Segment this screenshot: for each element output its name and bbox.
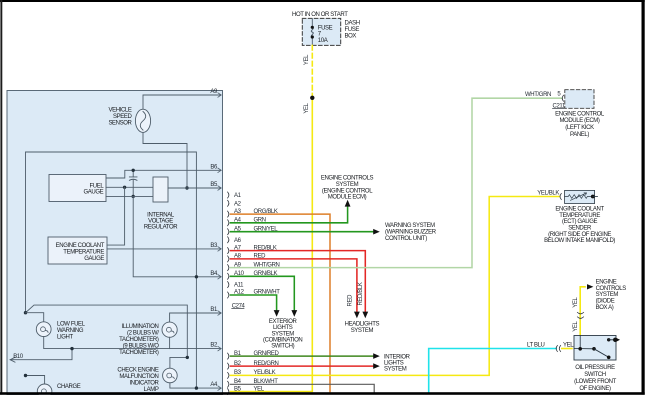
- node charge lamp branch: [24, 374, 27, 377]
- svg-text:GRN/YEL: GRN/YEL: [254, 226, 279, 232]
- svg-text:B2: B2: [210, 343, 218, 349]
- wire capacitor bottom down to B4 line: [133, 196, 221, 276]
- wire charge lamp top: [26, 376, 45, 385]
- svg-text:RED/GRN: RED/GRN: [254, 361, 279, 367]
- svg-text:SYSTEM: SYSTEM: [596, 292, 619, 298]
- wire ECT gauge up to fuel gauge net: [107, 187, 125, 245]
- svg-text:TACHOMETER): TACHOMETER): [119, 337, 159, 343]
- svg-text:INDICATOR: INDICATOR: [129, 381, 159, 387]
- oil pressure switch: [574, 336, 620, 393]
- svg-text:B1: B1: [210, 307, 218, 313]
- wire fuel gauge top to pin B6: [106, 170, 221, 178]
- wire YEL short to oil pressure switch: [562, 348, 572, 350]
- svg-text:GRN: GRN: [254, 218, 266, 224]
- svg-text:A1: A1: [234, 193, 242, 199]
- wire check engine lamp top: [170, 357, 187, 368]
- svg-text:SWITCH: SWITCH: [584, 372, 605, 378]
- fuse terminal dots: [311, 26, 314, 29]
- svg-text:OIL PRESSURE: OIL PRESSURE: [575, 365, 615, 371]
- illumination lamp: [119, 322, 177, 356]
- svg-text:B5: B5: [234, 386, 242, 392]
- node loop joins B4 line: [195, 275, 198, 278]
- svg-text:YEL: YEL: [304, 102, 310, 113]
- svg-text:(LOWER FRONT: (LOWER FRONT: [574, 379, 616, 385]
- engine coolant temperature gauge: [48, 237, 107, 264]
- svg-text:RED/BLK: RED/BLK: [254, 245, 277, 251]
- svg-text:OF ENGINE): OF ENGINE): [579, 386, 611, 392]
- svg-text:FUSE: FUSE: [318, 25, 333, 31]
- arrows to interior lights system: [373, 353, 380, 359]
- svg-text:SYSTEM: SYSTEM: [351, 328, 374, 334]
- svg-text:A4: A4: [210, 382, 218, 388]
- svg-text:MALFUNCTION: MALFUNCTION: [119, 374, 158, 380]
- svg-text:GAUGE: GAUGE: [84, 256, 104, 262]
- svg-text:GAUGE: GAUGE: [84, 190, 104, 196]
- svg-text:WARNING: WARNING: [57, 328, 84, 334]
- svg-text:SYSTEM: SYSTEM: [336, 182, 359, 188]
- node loop joins A4 line: [195, 386, 198, 389]
- vehicle speed sensor wire to pin A9: [143, 95, 221, 110]
- svg-text:WARNING SYSTEM: WARNING SYSTEM: [385, 223, 435, 229]
- svg-text:REGULATOR: REGULATOR: [144, 225, 178, 231]
- svg-text:DASH: DASH: [345, 20, 360, 26]
- svg-text:SWITCH): SWITCH): [271, 344, 294, 350]
- dash fuse box: [302, 18, 340, 45]
- capacitor C1 leads: [132, 170, 134, 196]
- svg-text:RED: RED: [254, 254, 267, 260]
- wire YEL dashed from fuse: [311, 45, 313, 97]
- wire A4 GRN: [231, 206, 348, 222]
- arrow to engine controls system diode box: [587, 284, 593, 289]
- charge warning light: [37, 384, 80, 395]
- inline connector on YEL wire: [577, 312, 583, 318]
- svg-text:SYSTEM: SYSTEM: [384, 366, 407, 372]
- wire B4 BLK/WHT: [231, 384, 375, 392]
- node B10 joins lamp rail: [70, 347, 73, 350]
- svg-text:LIGHTS: LIGHTS: [273, 325, 293, 331]
- pin arrow B3: [218, 247, 221, 251]
- svg-text:B4: B4: [210, 271, 218, 277]
- svg-text:BLK/WHT: BLK/WHT: [254, 379, 279, 385]
- wire A3 ORG/BLK: [231, 214, 331, 392]
- wire low fuel lamp bottom to B2 rail: [44, 337, 221, 349]
- svg-text:ENGINE COOLANT: ENGINE COOLANT: [555, 207, 604, 213]
- connector symbol at ECM: [562, 95, 563, 101]
- wire ECT gauge to pin B3: [107, 248, 221, 250]
- arrows to exterior lights system: [274, 310, 280, 317]
- svg-text:PANEL): PANEL): [570, 132, 589, 138]
- svg-text:(2 BULBS W/: (2 BULBS W/: [127, 331, 159, 337]
- wire A7 RED/BLK: [231, 251, 366, 312]
- svg-text:B3: B3: [210, 243, 218, 249]
- pin arrow B2: [218, 346, 221, 350]
- instrument cluster box: [7, 91, 223, 395]
- wire B3 YEL/BLK: [231, 197, 560, 376]
- svg-text:TEMPERATURE: TEMPERATURE: [63, 250, 104, 256]
- arrow B10: [10, 357, 15, 362]
- wire regulator to pin B5: [168, 187, 221, 189]
- wire fuel gauge middle to regulator: [106, 186, 153, 188]
- svg-text:WHT/GRN: WHT/GRN: [254, 262, 280, 268]
- svg-text:SPEED: SPEED: [113, 114, 132, 120]
- svg-text:A9: A9: [210, 89, 218, 95]
- node capacitor top on B6 line: [132, 169, 135, 172]
- svg-text:RED/BLK: RED/BLK: [358, 282, 364, 305]
- svg-text:FUSE: FUSE: [345, 27, 360, 33]
- svg-text:VEHICLE: VEHICLE: [108, 108, 131, 114]
- node capacitor bottom: [132, 195, 135, 198]
- svg-text:ENGINE COOLANT: ENGINE COOLANT: [56, 243, 105, 249]
- low fuel warning light: [36, 321, 85, 340]
- capacitor C1: [129, 177, 137, 180]
- svg-text:LIGHT: LIGHT: [57, 334, 73, 340]
- svg-text:ENGINE: ENGINE: [596, 279, 617, 285]
- wire illumination lamp bottom: [169, 337, 171, 348]
- svg-text:FUEL: FUEL: [89, 183, 104, 189]
- fuse 7 10A leads: [311, 18, 313, 45]
- wire VSS bottom to B5 net: [143, 132, 187, 188]
- svg-text:LT BLU: LT BLU: [527, 342, 545, 348]
- wire B1 GRN/RED: [231, 355, 374, 357]
- svg-text:LAMP: LAMP: [144, 387, 159, 393]
- connector C274 pin sockets: [228, 192, 229, 395]
- svg-text:YEL: YEL: [304, 54, 310, 65]
- pin arrow A4: [218, 386, 221, 390]
- svg-text:10A: 10A: [318, 38, 328, 44]
- pin arrow A9: [218, 93, 221, 97]
- svg-text:B6: B6: [210, 164, 218, 170]
- wire illumination lamp top to pin B1: [170, 313, 221, 322]
- connector symbol at ECT sender: [560, 194, 561, 200]
- svg-text:YEL: YEL: [573, 296, 579, 307]
- wire B10 dimmer feed: [10, 349, 72, 360]
- wire YEL to diode box A: [580, 287, 585, 336]
- svg-text:WHT/GRN: WHT/GRN: [525, 92, 551, 98]
- svg-text:BOX A): BOX A): [596, 305, 614, 311]
- pin arrow B1: [218, 311, 221, 315]
- svg-text:B5: B5: [210, 182, 218, 188]
- wire A8 RED: [231, 259, 357, 312]
- svg-text:(WARNING BUZZER: (WARNING BUZZER: [385, 230, 437, 236]
- svg-text:A6: A6: [234, 238, 242, 244]
- svg-text:ENGINE CONTROLS: ENGINE CONTROLS: [321, 176, 374, 182]
- svg-text:YEL/BLK: YEL/BLK: [537, 191, 559, 197]
- vehicle speed sensor VSS: [108, 108, 150, 133]
- pin arrow B4: [218, 275, 221, 279]
- svg-text:CHARGE: CHARGE: [57, 384, 81, 390]
- arrow to warning system: [373, 229, 380, 235]
- svg-text:MODULE (ECM): MODULE (ECM): [559, 118, 599, 124]
- page border left: [0, 0, 2, 395]
- svg-text:RED: RED: [348, 294, 354, 307]
- svg-text:(ENGINE CONTROL: (ENGINE CONTROL: [322, 188, 373, 194]
- svg-text:BOX: BOX: [345, 34, 357, 40]
- svg-text:CONTROL UNIT): CONTROL UNIT): [385, 236, 427, 242]
- svg-text:CONTROLS: CONTROLS: [596, 286, 627, 292]
- svg-text:(DIODE: (DIODE: [596, 299, 615, 305]
- svg-text:CHECK ENGINE: CHECK ENGINE: [117, 368, 158, 374]
- svg-text:YEL: YEL: [573, 320, 579, 331]
- svg-text:TACHOMETER): TACHOMETER): [119, 350, 159, 356]
- svg-text:(RIGHT SIDE OF ENGINE: (RIGHT SIDE OF ENGINE: [548, 232, 611, 238]
- inline connector LT BLU to YEL: [556, 346, 560, 352]
- svg-text:SENSOR: SENSOR: [108, 120, 132, 126]
- fuse 7 element: [311, 27, 313, 37]
- arrows to headlights system: [354, 312, 360, 319]
- wire low fuel lamp top: [26, 313, 44, 322]
- wire YEL main vertical: [231, 98, 313, 392]
- wire lamp common loop: [26, 152, 197, 388]
- svg-text:(LEFT KICK: (LEFT KICK: [565, 125, 594, 131]
- svg-text:(COMBINATION: (COMBINATION: [263, 338, 302, 344]
- check engine malfunction indicator lamp: [117, 368, 177, 394]
- wire fuel gauge bottom to regulator: [106, 195, 153, 197]
- svg-text:GRN/RED: GRN/RED: [254, 351, 280, 357]
- svg-text:HEADLIGHTS: HEADLIGHTS: [345, 321, 380, 327]
- svg-text:EXTERIOR: EXTERIOR: [269, 319, 298, 325]
- pin arrow B5: [218, 186, 221, 190]
- page border bottom: [0, 392, 645, 395]
- page border right: [642, 0, 645, 395]
- pin arrow B6: [218, 168, 221, 172]
- wire diagonal branch to lamp rail: [26, 305, 188, 357]
- engine control module ECM box: [555, 90, 605, 138]
- node check engine top junction: [186, 356, 189, 359]
- svg-text:TEMPERATURE: TEMPERATURE: [559, 213, 600, 219]
- svg-text:ENGINE CONTROL: ENGINE CONTROL: [555, 111, 605, 117]
- node fuel-ECT branch: [123, 186, 126, 189]
- node VSS-B5 junction: [185, 186, 188, 189]
- wire A5 GRN/YEL: [231, 231, 374, 233]
- fuel gauge: [49, 175, 106, 202]
- svg-text:LOW FUEL: LOW FUEL: [57, 321, 86, 327]
- svg-text:BELOW INTAKE MANIFOLD): BELOW INTAKE MANIFOLD): [544, 238, 615, 244]
- svg-text:MODULE ECM): MODULE ECM): [328, 195, 367, 201]
- svg-text:SYSTEM: SYSTEM: [271, 331, 294, 337]
- svg-text:YEL: YEL: [254, 386, 265, 392]
- svg-text:GRN/BLK: GRN/BLK: [254, 271, 278, 277]
- svg-text:(ECT) GAUGE: (ECT) GAUGE: [562, 219, 598, 225]
- svg-text:A2: A2: [234, 201, 242, 207]
- svg-text:GRN/WHT: GRN/WHT: [254, 290, 281, 296]
- svg-text:(9 BULBS W/O: (9 BULBS W/O: [123, 344, 159, 350]
- arrow to engine controls system: [345, 200, 351, 207]
- internal voltage regulator: [144, 177, 178, 231]
- svg-text:ORG/BLK: ORG/BLK: [254, 209, 278, 215]
- node low fuel lamp branch: [24, 311, 27, 314]
- wire A12 GRN/WHT: [231, 295, 277, 310]
- wire A9 WHT/GRN: [231, 98, 563, 267]
- svg-text:B10: B10: [13, 354, 24, 360]
- node splice on YEL wire: [310, 96, 314, 100]
- page border top: [0, 0, 645, 2]
- engine coolant temperature gauge sender: [544, 190, 615, 244]
- svg-text:YEL: YEL: [563, 342, 574, 348]
- wire LT BLU: [429, 349, 557, 392]
- wire A10 GRN/BLK: [231, 276, 295, 310]
- wire B2 RED/GRN: [231, 365, 374, 367]
- wire check engine lamp bottom to pin A4: [170, 383, 221, 388]
- svg-text:HOT IN ON OR START: HOT IN ON OR START: [292, 12, 348, 18]
- svg-text:ILLUMINATION: ILLUMINATION: [121, 324, 158, 330]
- svg-text:A11: A11: [234, 283, 244, 289]
- svg-text:SENDER: SENDER: [568, 226, 592, 232]
- svg-text:YEL/BLK: YEL/BLK: [254, 370, 276, 376]
